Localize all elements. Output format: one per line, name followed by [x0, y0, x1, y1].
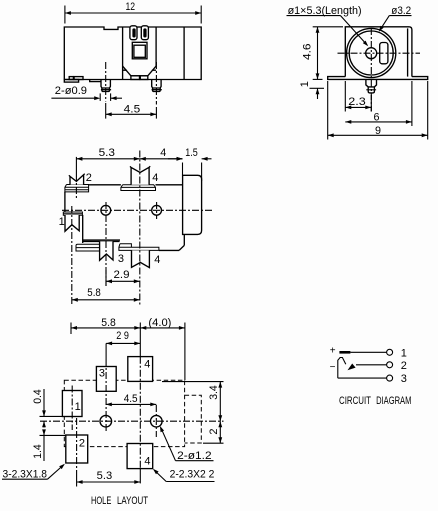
solder pad of pin 1 — [63, 212, 82, 215]
dimension 0.4 — [43, 389, 45, 416]
dimension 0.4 extension line — [40, 415, 63, 417]
front view: right pin centerline — [155, 62, 157, 105]
front view: internal vertical partition far right — [183, 27, 185, 80]
svg-text:12: 12 — [126, 1, 136, 13]
side view: bottom right chamfer — [179, 245, 184, 250]
front view: top prong 2 — [141, 26, 148, 40]
front view: gap line between prongs — [137, 26, 141, 28]
dimension 3.4 extension line — [162, 381, 224, 383]
pin 2 centerline — [75, 174, 77, 198]
end view: vertical centerline — [370, 28, 372, 112]
circuit: center pin contact bar — [339, 351, 350, 354]
svg-text:4.5: 4.5 — [124, 393, 138, 405]
svg-text:4: 4 — [160, 147, 166, 159]
front view: square window inner — [134, 45, 145, 57]
dimension 4.0 extension line — [184, 323, 186, 381]
front view: top prong 1 slot — [133, 29, 135, 37]
svg-text:2-ø1.2: 2-ø1.2 — [177, 450, 211, 462]
svg-text:1: 1 — [401, 347, 407, 359]
dimension 2 extension line — [203, 442, 224, 444]
pin 4 top crimp lug — [130, 166, 150, 185]
circuit: wire to terminal 2 — [356, 364, 386, 366]
dimension 5.3 hole layout — [77, 481, 141, 483]
front view: left lip plate — [64, 80, 78, 83]
dimension 2.9 side view — [106, 280, 140, 282]
svg-text:ø1×5.3(Length): ø1×5.3(Length) — [288, 5, 362, 17]
hole right round — [151, 415, 163, 427]
svg-text:3: 3 — [118, 253, 124, 265]
dimension 2.9 extension line — [105, 270, 107, 286]
end view: center pin circle — [366, 48, 377, 59]
solder pad of pin 3 — [76, 244, 113, 251]
svg-text:(4.0): (4.0) — [148, 317, 171, 329]
svg-text:4: 4 — [154, 254, 160, 266]
dimension 5.8 side view — [72, 299, 140, 301]
svg-text:ø3.2: ø3.2 — [391, 5, 411, 17]
circuit: terminal 3 circle — [387, 375, 393, 381]
svg-text:HOLE: HOLE — [91, 495, 111, 507]
hole 1 centerline — [71, 386, 73, 431]
circuit: switch contact arrow — [348, 364, 356, 371]
pin 4 bottom crimp lug — [132, 250, 150, 267]
front view: internal vertical partition left — [122, 27, 124, 80]
pin 2 crimp lug — [69, 174, 85, 185]
dimension 6 extension line — [411, 81, 413, 126]
side view: barrel — [183, 175, 202, 234]
pin 3 centerline — [105, 202, 107, 286]
side view: right rivet hole — [152, 205, 162, 215]
front view: internal vertical partition right — [155, 27, 157, 66]
svg-text:0.4: 0.4 — [32, 389, 44, 404]
svg-text:2: 2 — [208, 428, 220, 434]
front view: left tab small — [69, 77, 73, 80]
front view: left pin — [101, 80, 110, 89]
end view: body outline — [345, 27, 412, 77]
dimension 2.3 extension lines — [344, 81, 346, 112]
front view: chamfer tick left — [123, 69, 127, 71]
svg-text:1.5: 1.5 — [185, 147, 198, 159]
dimension 5.3 side view — [76, 158, 139, 160]
circuit: terminal 2 circle — [387, 362, 393, 368]
dimension 4 side view — [140, 158, 183, 160]
dimension 2 right side — [219, 421, 221, 443]
svg-text:3: 3 — [99, 367, 105, 379]
front view: left pin tip — [102, 88, 110, 92]
side view: body right edge below barrel — [183, 234, 185, 245]
dimension 9 — [328, 134, 428, 136]
dimension 4.5 hole layout — [106, 403, 157, 405]
svg-text:4: 4 — [144, 358, 150, 370]
dimension 5.3 side view extension — [75, 157, 77, 174]
svg-text:1: 1 — [299, 81, 311, 87]
dimension 4.5 extension lines — [105, 103, 107, 119]
end view: bottom pin wide part — [366, 79, 377, 87]
solder pad of pin 4 bottom — [119, 244, 159, 251]
hole 4 top rectangle — [128, 357, 153, 382]
dimension 1 extension line — [310, 87, 325, 89]
solder pad of pin 2 — [65, 185, 89, 192]
end view: mounting flange — [328, 77, 428, 80]
hole layout: hidden body outline — [64, 380, 184, 446]
dimension 12 — [65, 12, 201, 14]
front view: jack body outline — [64, 27, 201, 80]
hole layout: vertical centerline — [139, 323, 141, 357]
end view: bottom pin end tick — [366, 89, 376, 91]
svg-text:2.9: 2.9 — [114, 269, 130, 281]
front view: chamfer tick right — [152, 69, 156, 71]
front view: center foot right — [140, 76, 148, 80]
front view: left pin centerline — [105, 62, 107, 102]
side view: body left edge upper — [64, 192, 66, 213]
end view: barrel outer circle — [347, 28, 396, 77]
end view: horizontal centerline — [338, 52, 421, 54]
svg-text:3: 3 — [401, 373, 407, 385]
right round hole centerline — [155, 405, 157, 437]
dimension 1.5 side view — [168, 158, 183, 160]
dimension 4.5 front view — [106, 113, 157, 115]
dimension 9 extension lines — [327, 81, 329, 140]
svg-text:4: 4 — [144, 455, 150, 467]
svg-text:5.3: 5.3 — [97, 470, 113, 482]
side view: body bottom edge double line — [83, 239, 120, 241]
hole left round — [100, 415, 112, 427]
hole 2 centerline — [76, 418, 78, 470]
front view: right pin tip — [153, 88, 161, 92]
right rivet centerline — [156, 202, 158, 219]
hole 3 rectangle — [96, 367, 116, 392]
dimension 2.3 — [345, 106, 371, 108]
side view: vertical centerline — [139, 151, 141, 305]
svg-text:2.3: 2.3 — [348, 96, 366, 108]
circuit: wire to terminal 1 — [350, 351, 386, 353]
svg-text:LAYOUT: LAYOUT — [117, 495, 148, 507]
dimension 12 extension lines — [64, 6, 66, 24]
svg-text:2: 2 — [79, 437, 85, 449]
front view: bottom chamfer left — [123, 66, 157, 76]
dimension 1.4 extension line — [40, 434, 66, 436]
front view: square window outer — [132, 42, 147, 59]
end view: inner slot — [380, 43, 388, 64]
dimension (4.0) hole layout — [140, 327, 185, 329]
svg-text:CIRCUIT: CIRCUIT — [339, 395, 371, 407]
circuit: switch spring contact — [338, 358, 346, 379]
svg-text:2: 2 — [401, 360, 407, 372]
dimension 3.4 — [219, 382, 221, 422]
dimension 5.8 extension line — [70, 323, 72, 335]
solder pad of pin 4 top — [121, 185, 156, 191]
svg-text:1.4: 1.4 — [32, 444, 44, 459]
svg-text:2 9: 2 9 — [116, 330, 129, 342]
svg-text:2: 2 — [86, 172, 92, 184]
dimension 2.9 hole layout — [106, 342, 140, 344]
front view: top prong 1 — [130, 26, 137, 40]
svg-text:4: 4 — [152, 172, 158, 184]
svg-text:5.3: 5.3 — [99, 147, 115, 159]
hole layout: horizontal centerline — [40, 420, 224, 422]
svg-text:2-2.3X2 2: 2-2.3X2 2 — [170, 469, 215, 481]
svg-text:1: 1 — [59, 216, 65, 228]
dimension 1.5 extension lines — [182, 163, 184, 176]
hole 3 centerline — [105, 343, 107, 359]
svg-text:9: 9 — [375, 125, 381, 137]
pin 3 crimp lug — [100, 241, 113, 260]
dimension 4.6 — [317, 27, 319, 80]
circuit: wire to terminal 3 — [338, 377, 387, 379]
svg-text:−: − — [330, 362, 336, 373]
end view: right fold line — [407, 28, 409, 76]
front view: left tab wide — [74, 77, 83, 80]
hole layout: hidden barrel outline — [185, 395, 202, 443]
end view: barrel inner circle — [349, 31, 393, 75]
dimension 5.8 hole layout — [71, 327, 140, 329]
dia0.9 measure ticks and arrows — [99, 93, 101, 101]
pin 1 centerline — [71, 206, 73, 305]
side view: left rivet hole — [101, 205, 111, 215]
front view: center foot left — [131, 76, 140, 80]
svg-text:5.8: 5.8 — [87, 287, 101, 299]
svg-text:4.6: 4.6 — [302, 44, 314, 61]
svg-text:4.5: 4.5 — [124, 104, 141, 116]
dimension 6 — [345, 121, 412, 123]
hole 4 bottom rectangle — [127, 444, 153, 469]
svg-text:6: 6 — [374, 112, 380, 124]
front view: right pin end tick — [152, 89, 162, 91]
side view: body left edge lower — [82, 215, 84, 243]
svg-text:2-ø0.9: 2-ø0.9 — [55, 85, 87, 97]
svg-text:+: + — [330, 345, 336, 356]
end view: bottom pin tip — [368, 87, 374, 93]
svg-text:3.4: 3.4 — [208, 385, 220, 400]
svg-text:DIAGRAM: DIAGRAM — [376, 395, 411, 407]
circuit: terminal 1 circle — [387, 349, 393, 355]
front view: left pin end tick — [101, 89, 111, 91]
dimension 1 — [317, 88, 319, 99]
pin 1 crimp lug — [65, 215, 79, 231]
hole 1 rectangle — [62, 391, 82, 417]
side view: horizontal centerline — [62, 209, 213, 211]
svg-text:5.8: 5.8 — [101, 317, 116, 329]
svg-text:1: 1 — [75, 401, 81, 413]
dimension 1.4 — [43, 430, 45, 436]
side view: body bottom edge right — [159, 249, 179, 251]
front view: right pin — [152, 80, 161, 89]
dimension 4.6 extension lines — [313, 26, 343, 28]
hole 2 rectangle — [66, 435, 88, 463]
side view: body top edge — [89, 184, 121, 186]
front view: top prong 2 slot — [144, 29, 146, 37]
front view: lip step near left pin — [90, 80, 101, 82]
